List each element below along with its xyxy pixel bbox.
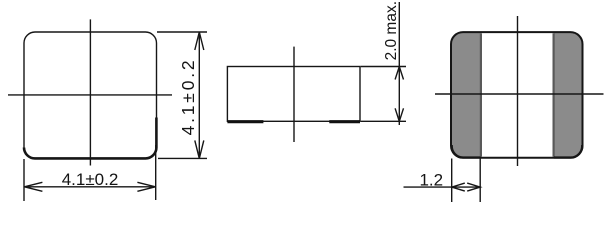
top view horizontal center line [8, 94, 172, 96]
extension line lower-right [158, 157, 207, 159]
front view outline [451, 32, 583, 158]
front view electrode right [554, 33, 582, 157]
dimension line 2.0 [395, 2, 403, 125]
dimension line 4.1 right [195, 32, 204, 158]
extension line 2.0 bottom [361, 120, 406, 122]
front view horizontal center line [435, 93, 604, 95]
extension line 1.2 left [451, 159, 453, 203]
dimension line 1.2 [404, 183, 481, 191]
side view terminal left [227, 120, 263, 123]
top view vertical center line [89, 19, 91, 165]
extension line 1.2 right [479, 159, 481, 203]
front view electrode right inner edge [552, 33, 554, 157]
top view outline [24, 32, 157, 159]
side view outline [227, 67, 360, 122]
side view center line [293, 47, 295, 142]
svg-text:2.0 max.: 2.0 max. [383, 1, 400, 60]
side view terminal right [329, 120, 360, 123]
top view shadow edge (thick bottom-right) [24, 118, 156, 159]
extension line bottom-right [155, 145, 157, 200]
front view thick corner shading [452, 145, 582, 158]
extension line top-right [157, 31, 207, 33]
front view electrode left [452, 33, 481, 157]
front view vertical center line [517, 16, 519, 166]
extension line 2.0 top [361, 66, 406, 68]
extension line bottom-left [23, 159, 25, 201]
dimension line 4.1 bottom [24, 182, 155, 191]
front view electrode left inner edge [480, 33, 482, 157]
svg-text:4.1±0.2: 4.1±0.2 [62, 170, 119, 189]
svg-text:4.1±0.2: 4.1±0.2 [178, 58, 198, 136]
svg-text:1.2: 1.2 [419, 170, 443, 189]
